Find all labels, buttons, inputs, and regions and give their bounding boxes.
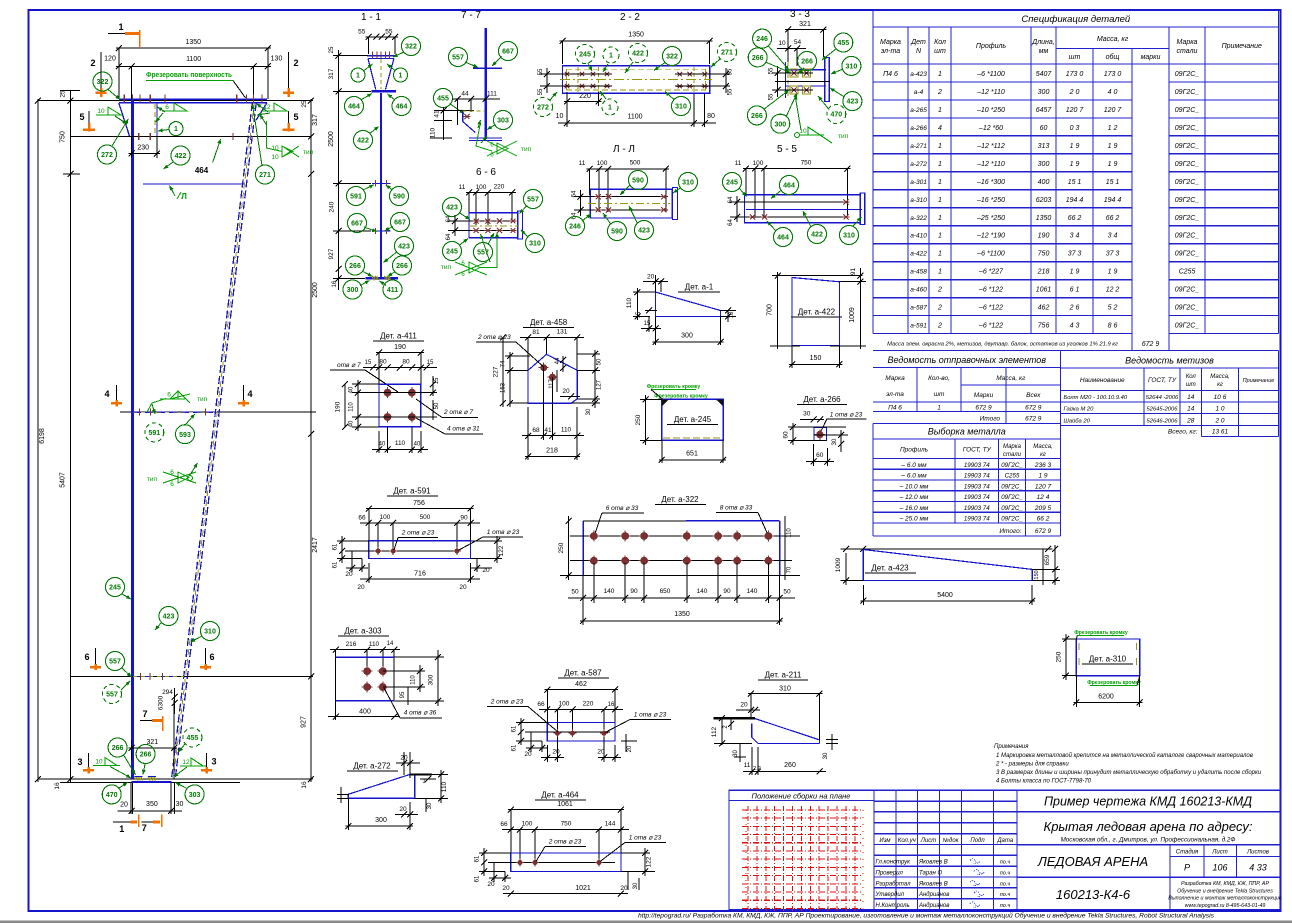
svg-text:20: 20 xyxy=(459,584,467,591)
svg-text:411: 411 xyxy=(387,287,398,294)
svg-text:09Г2С_: 09Г2С_ xyxy=(1001,462,1023,469)
svg-text:Обучение и внедрение Tekla S: Обучение и внедрение Tekla Structures xyxy=(1177,888,1273,894)
right dim chain xyxy=(310,99,312,782)
2-2 bottom dims xyxy=(566,106,568,127)
svg-text:Спецификация деталей: Спецификация деталей xyxy=(1021,14,1131,25)
svg-text:а-272: а-272 xyxy=(910,161,927,168)
svg-text:271: 271 xyxy=(721,50,733,57)
svg-text:4 33: 4 33 xyxy=(1249,863,1267,873)
svg-text:52646-2006: 52646-2006 xyxy=(1147,418,1179,424)
7-7 column line xyxy=(484,28,487,139)
svg-text:Примечание: Примечание xyxy=(1222,43,1262,50)
svg-text:120: 120 xyxy=(104,56,116,63)
svg-text:3: 3 xyxy=(211,757,216,767)
svg-text:64: 64 xyxy=(572,212,578,219)
svg-text:1: 1 xyxy=(938,269,942,276)
svg-text:19903 74: 19903 74 xyxy=(964,505,990,512)
svg-text:– 12.0 мм: – 12.0 мм xyxy=(899,494,929,501)
svg-text:14: 14 xyxy=(1187,406,1195,413)
svg-text:Проверил: Проверил xyxy=(876,870,904,876)
2-2 bolt row lines xyxy=(540,73,612,75)
svg-text:3 4: 3 4 xyxy=(1070,233,1080,240)
svg-text:122: 122 xyxy=(498,545,505,556)
a-458 dims xyxy=(505,355,530,357)
svg-text:1100: 1100 xyxy=(627,114,642,121)
svg-text:591: 591 xyxy=(148,430,160,437)
svg-text:–10 *250: –10 *250 xyxy=(976,107,1005,114)
svg-text:6198: 6198 xyxy=(39,428,46,444)
weld flag 10 (shoe) xyxy=(93,765,120,767)
svg-text:64: 64 xyxy=(728,196,734,203)
svg-text:10: 10 xyxy=(729,311,735,318)
svg-text:1: 1 xyxy=(609,53,613,60)
a-322 bolt rows xyxy=(570,535,800,537)
svg-text:а-266: а-266 xyxy=(910,125,927,132)
svg-text:эл-та: эл-та xyxy=(881,48,900,55)
svg-text:50: 50 xyxy=(597,358,603,365)
a-322 left dim xyxy=(568,516,570,580)
svg-text:25: 25 xyxy=(301,100,308,108)
svg-text:1: 1 xyxy=(938,71,942,78)
table vyborka metalla xyxy=(873,424,1061,537)
svg-text:– 16.0 мм: – 16.0 мм xyxy=(899,505,929,512)
svg-text:7: 7 xyxy=(142,823,147,833)
svg-text:09Г2С_: 09Г2С_ xyxy=(1175,71,1200,78)
svg-text:30: 30 xyxy=(733,750,739,757)
svg-text:266: 266 xyxy=(140,752,152,759)
svg-text:Итого: Итого xyxy=(980,416,1001,423)
left dim chain 5407/750 xyxy=(70,90,72,782)
svg-text:2: 2 xyxy=(937,89,942,96)
svg-text:423: 423 xyxy=(446,205,458,212)
svg-text:С255: С255 xyxy=(1005,473,1020,480)
svg-text:322: 322 xyxy=(666,54,678,61)
svg-text:310: 310 xyxy=(779,686,791,693)
svg-text:6: 6 xyxy=(209,652,214,662)
svg-text:тип: тип xyxy=(838,133,849,140)
svg-text:310: 310 xyxy=(843,233,855,240)
dim 1350 xyxy=(116,47,271,49)
svg-text:590: 590 xyxy=(611,229,623,236)
level line top xyxy=(38,100,313,102)
svg-text:11: 11 xyxy=(735,160,742,167)
svg-text:2 отв ⌀ 23: 2 отв ⌀ 23 xyxy=(401,530,435,537)
svg-text:2 - 2: 2 - 2 xyxy=(620,12,640,23)
svg-text:1 9: 1 9 xyxy=(1108,143,1118,150)
svg-text:6203: 6203 xyxy=(1036,197,1052,204)
brace top right slope xyxy=(256,103,267,120)
svg-text:672 9: 672 9 xyxy=(1142,341,1160,348)
svg-text:отв ⌀ 7: отв ⌀ 7 xyxy=(337,362,361,369)
svg-text:09Г2С_: 09Г2С_ xyxy=(1175,107,1200,114)
svg-text:1 отв ⌀ 23: 1 отв ⌀ 23 xyxy=(634,712,667,719)
svg-text:Итого:: Итого: xyxy=(999,528,1021,535)
balloons base xyxy=(102,785,121,804)
svg-text:Масса элем. окрасна 2%, метизо: Масса элем. окрасна 2%, метизов, двутавр… xyxy=(887,342,1118,348)
svg-text:2500: 2500 xyxy=(328,131,335,147)
svg-text:–6 *227: –6 *227 xyxy=(978,269,1004,276)
svg-text:40: 40 xyxy=(379,442,386,448)
svg-text:ГОСТ, ТУ: ГОСТ, ТУ xyxy=(963,447,992,454)
svg-text:1: 1 xyxy=(938,107,942,114)
svg-text:Таран О: Таран О xyxy=(919,870,943,876)
svg-text:91: 91 xyxy=(850,268,857,276)
left dim chain 6198 xyxy=(37,99,39,782)
green L mark xyxy=(170,186,176,197)
svg-text:266: 266 xyxy=(396,263,408,270)
svg-text:тип: тип xyxy=(521,146,532,153)
3-3 bolts xyxy=(790,69,798,77)
svg-text:303: 303 xyxy=(497,118,509,125)
svg-text:37 3: 37 3 xyxy=(1068,251,1082,258)
svg-text:300: 300 xyxy=(681,333,693,340)
svg-text:Наименование: Наименование xyxy=(1080,377,1125,384)
stiffener 230 xyxy=(156,103,158,137)
svg-text:16: 16 xyxy=(332,280,338,287)
svg-text:60: 60 xyxy=(1040,125,1048,132)
svg-text:750: 750 xyxy=(60,131,67,143)
2-2 center dash xyxy=(560,79,712,81)
svg-text:1 9: 1 9 xyxy=(1108,161,1118,168)
svg-text:09Г2С_: 09Г2С_ xyxy=(1175,323,1200,330)
svg-text:111: 111 xyxy=(487,91,497,98)
svg-text:20: 20 xyxy=(597,749,605,756)
svg-text:1009: 1009 xyxy=(835,557,842,572)
svg-text:09Г2С_: 09Г2С_ xyxy=(1175,161,1200,168)
svg-text:5 - 5: 5 - 5 xyxy=(777,144,797,155)
svg-text:шт: шт xyxy=(1186,382,1196,388)
svg-text:Яковлев В: Яковлев В xyxy=(918,860,948,866)
svg-text:500: 500 xyxy=(630,160,641,167)
svg-text:64: 64 xyxy=(728,219,734,226)
svg-text:–6 *122: –6 *122 xyxy=(978,323,1003,330)
svg-text:16: 16 xyxy=(301,781,308,789)
svg-text:Марка: Марка xyxy=(880,39,901,46)
svg-text:106: 106 xyxy=(1212,863,1227,873)
svg-text:Гл.конструк: Гл.конструк xyxy=(876,860,912,866)
svg-text:80: 80 xyxy=(379,359,387,366)
3-3 channel xyxy=(786,69,827,71)
svg-text:120 7: 120 7 xyxy=(1035,483,1052,490)
6-6 balloons xyxy=(443,198,462,217)
svg-text:260: 260 xyxy=(784,762,796,769)
svg-text:50: 50 xyxy=(434,402,440,409)
svg-text:Профиль: Профиль xyxy=(976,43,1007,50)
svg-text:81: 81 xyxy=(532,329,540,336)
svg-text:15: 15 xyxy=(636,311,642,318)
svg-text:Дет. а-245: Дет. а-245 xyxy=(674,415,712,424)
svg-text:а-587: а-587 xyxy=(910,305,927,312)
svg-text:Положение сборки на плане: Положение сборки на плане xyxy=(752,791,851,800)
svg-text:20: 20 xyxy=(482,567,490,574)
svg-text:66: 66 xyxy=(500,821,508,828)
svg-text:1100: 1100 xyxy=(186,56,201,63)
svg-text:4 отв ⌀ 36: 4 отв ⌀ 36 xyxy=(404,710,437,717)
svg-text:1: 1 xyxy=(938,215,942,222)
svg-text:173 0: 173 0 xyxy=(1104,71,1122,78)
svg-text:6457: 6457 xyxy=(1036,107,1053,114)
svg-text:1: 1 xyxy=(938,197,942,204)
svg-text:14: 14 xyxy=(387,641,394,647)
svg-text:227: 227 xyxy=(493,366,500,377)
svg-text:756: 756 xyxy=(1038,323,1050,330)
svg-text:по.ч: по.ч xyxy=(1000,881,1011,887)
svg-text:455: 455 xyxy=(837,40,849,47)
svg-text:Андрианов: Андрианов xyxy=(918,903,949,909)
level line 6-6 (y=676.5) xyxy=(70,676,313,678)
svg-text:250: 250 xyxy=(1056,651,1063,662)
svg-text:100: 100 xyxy=(753,160,764,167)
svg-text:Дет. а-1: Дет. а-1 xyxy=(685,283,714,292)
svg-text:Дет. а-310: Дет. а-310 xyxy=(1089,655,1127,664)
1-1 flange bar xyxy=(372,90,397,93)
svg-text:09Г2С_: 09Г2С_ xyxy=(1001,516,1023,523)
svg-text:– 10.0 мм: – 10.0 мм xyxy=(899,483,929,490)
svg-text:1021: 1021 xyxy=(575,885,591,892)
svg-text:209 5: 209 5 xyxy=(1034,505,1052,512)
svg-text:500: 500 xyxy=(420,514,431,521)
svg-text:1061: 1061 xyxy=(1036,287,1052,294)
svg-text:672 9: 672 9 xyxy=(1025,405,1042,412)
svg-text:66 2: 66 2 xyxy=(1068,215,1082,222)
L-L bar xyxy=(590,189,672,218)
svg-text:2 отв ⌀ 7: 2 отв ⌀ 7 xyxy=(443,409,473,416)
svg-text:303: 303 xyxy=(189,792,201,799)
title block xyxy=(729,790,1281,909)
svg-text:70: 70 xyxy=(787,566,793,573)
5-5 left dims xyxy=(736,196,738,222)
svg-text:Масса, кг: Масса, кг xyxy=(1097,36,1129,43)
svg-text:462: 462 xyxy=(1038,305,1050,312)
svg-text:55: 55 xyxy=(538,68,544,75)
svg-text:310: 310 xyxy=(846,64,858,71)
svg-text:10: 10 xyxy=(97,108,105,115)
svg-text:455: 455 xyxy=(187,735,199,742)
svg-text:Разработка КМ, КМД, КЖ, ППР, А: Разработка КМ, КМД, КЖ, ППР, АР xyxy=(1181,881,1269,887)
svg-text:240: 240 xyxy=(329,201,336,212)
svg-text:927: 927 xyxy=(328,248,335,259)
svg-text:Примечание: Примечание xyxy=(1243,378,1275,384)
svg-text:230: 230 xyxy=(137,145,149,152)
svg-text:1: 1 xyxy=(938,161,942,168)
svg-text:52644 -2006: 52644 -2006 xyxy=(1146,395,1179,401)
svg-text:10: 10 xyxy=(271,154,279,161)
svg-text:Марка: Марка xyxy=(1003,444,1022,450)
anchor hatches xyxy=(135,777,143,781)
1-1 funnel xyxy=(368,58,376,89)
5-5 bolts xyxy=(749,214,756,219)
svg-text:61: 61 xyxy=(475,875,481,882)
shoe balloons xyxy=(108,738,127,757)
svg-text:321: 321 xyxy=(799,21,811,28)
svg-text:55: 55 xyxy=(769,93,775,100)
svg-text:Дата: Дата xyxy=(996,838,1013,844)
svg-text:110: 110 xyxy=(441,781,448,792)
svg-text:218: 218 xyxy=(1037,269,1050,276)
svg-text:1: 1 xyxy=(937,405,941,412)
svg-text:19903 74: 19903 74 xyxy=(964,462,990,469)
svg-text:150: 150 xyxy=(1034,570,1040,579)
svg-text:140: 140 xyxy=(604,588,615,595)
svg-text:1 отв ⌀ 23: 1 отв ⌀ 23 xyxy=(629,835,662,842)
svg-text:Масса, кг: Масса, кг xyxy=(996,375,1026,382)
svg-text:Листов: Листов xyxy=(1246,850,1269,856)
svg-text:80: 80 xyxy=(402,359,410,366)
svg-text:140: 140 xyxy=(697,588,708,595)
svg-text:Профиль: Профиль xyxy=(900,447,929,454)
svg-text:2 0: 2 0 xyxy=(1069,89,1080,96)
svg-text:5407: 5407 xyxy=(60,472,67,488)
3-3 balloons xyxy=(753,29,772,48)
svg-text:Дет. а-422: Дет. а-422 xyxy=(798,308,836,317)
svg-text:30: 30 xyxy=(586,408,592,415)
svg-text:Изм: Изм xyxy=(879,838,890,844)
svg-text:423: 423 xyxy=(638,228,650,235)
svg-text:Кол: Кол xyxy=(1186,374,1197,380)
2-2 olive inner xyxy=(566,68,706,70)
svg-text:09Г2С_: 09Г2С_ xyxy=(1175,287,1200,294)
svg-text:110: 110 xyxy=(430,127,437,138)
svg-text:– 6.0 мм: – 6.0 мм xyxy=(900,462,927,469)
svg-text:317: 317 xyxy=(328,68,335,79)
svg-text:557: 557 xyxy=(109,659,121,666)
svg-text:131: 131 xyxy=(557,329,568,336)
svg-text:Дет. а-322: Дет. а-322 xyxy=(661,495,699,504)
svg-text:–12 *190: –12 *190 xyxy=(976,233,1005,240)
svg-text:20: 20 xyxy=(487,881,495,888)
svg-text:464: 464 xyxy=(396,104,408,111)
svg-text:6: 6 xyxy=(165,104,169,111)
svg-text:672 9: 672 9 xyxy=(975,405,992,412)
table vedomost metizov xyxy=(1061,351,1279,437)
svg-text:–6 *122: –6 *122 xyxy=(978,287,1003,294)
svg-text:09Г2С_: 09Г2С_ xyxy=(1175,233,1200,240)
svg-text:–12 *112: –12 *112 xyxy=(976,143,1005,150)
svg-text:144: 144 xyxy=(605,821,616,828)
svg-text:60: 60 xyxy=(816,452,824,459)
svg-text:0 3: 0 3 xyxy=(1070,125,1080,132)
7-7 flange line xyxy=(473,67,502,69)
svg-text:по.ч: по.ч xyxy=(1000,860,1011,866)
svg-text:30: 30 xyxy=(803,411,811,418)
svg-text:60: 60 xyxy=(783,431,790,439)
svg-text:190: 190 xyxy=(335,401,342,412)
svg-text:266: 266 xyxy=(349,263,361,270)
svg-text:590: 590 xyxy=(393,194,405,201)
svg-text:09Г2С_: 09Г2С_ xyxy=(1175,143,1200,150)
svg-text:1009: 1009 xyxy=(849,307,856,323)
svg-text:2 отв ⌀ 23: 2 отв ⌀ 23 xyxy=(490,699,524,706)
svg-text:30: 30 xyxy=(633,882,639,889)
svg-text:марки: марки xyxy=(1141,54,1161,61)
svg-text:шт: шт xyxy=(934,48,946,55)
svg-text:Дет: Дет xyxy=(910,39,926,46)
svg-text:20: 20 xyxy=(357,584,365,591)
svg-text:300: 300 xyxy=(1038,89,1050,96)
2-2 balloons xyxy=(576,45,595,64)
svg-text:122: 122 xyxy=(646,856,653,867)
svg-text:462: 462 xyxy=(575,681,587,688)
svg-text:2 отв ⌀ 23: 2 отв ⌀ 23 xyxy=(548,839,582,846)
svg-text:2: 2 xyxy=(293,58,298,68)
a-411 dim web xyxy=(352,383,379,385)
svg-text:294: 294 xyxy=(162,689,173,696)
5-5 balloons xyxy=(723,173,742,192)
svg-text:44: 44 xyxy=(555,357,561,364)
svg-text:1 Маркировка металловой крепи: 1 Маркировка металловой крепится на мета… xyxy=(996,752,1253,759)
svg-text:130: 130 xyxy=(271,56,283,63)
svg-text:220: 220 xyxy=(579,93,591,100)
svg-text:–16 *300: –16 *300 xyxy=(976,179,1005,186)
svg-text:Дет. а-411: Дет. а-411 xyxy=(380,332,417,341)
svg-text:700: 700 xyxy=(767,304,774,316)
svg-text:Лист: Лист xyxy=(920,838,936,844)
5-5 top dims xyxy=(743,168,851,170)
weld flag 6 tip (mid) xyxy=(147,399,166,413)
svg-text:40: 40 xyxy=(349,386,355,393)
svg-text:190: 190 xyxy=(1038,233,1050,240)
svg-text:Марка: Марка xyxy=(1177,39,1198,46)
svg-text:1350: 1350 xyxy=(674,611,690,618)
svg-text:110: 110 xyxy=(561,427,572,434)
svg-text:1 9: 1 9 xyxy=(1070,161,1080,168)
6-6 body xyxy=(469,213,518,238)
svg-text:6300: 6300 xyxy=(158,695,165,710)
svg-text:55: 55 xyxy=(358,29,366,36)
svg-text:1 9: 1 9 xyxy=(1038,473,1047,480)
svg-text:09Г2С_: 09Г2С_ xyxy=(1175,251,1200,258)
svg-text:20: 20 xyxy=(562,388,570,395)
svg-text:20: 20 xyxy=(120,802,128,809)
svg-text:6: 6 xyxy=(170,481,174,488)
bottom dims 20/350/30 xyxy=(130,783,132,814)
svg-text:2 0: 2 0 xyxy=(1214,417,1224,424)
svg-text:90: 90 xyxy=(630,588,638,595)
svg-text:5 2: 5 2 xyxy=(1108,305,1118,312)
balloons 591/593 xyxy=(145,423,164,442)
svg-text:Примечания: Примечания xyxy=(994,744,1029,750)
table vedomost otpravochnyh xyxy=(873,351,1061,424)
svg-text:591: 591 xyxy=(350,194,362,201)
svg-text:2 * - размеры для справки: 2 * - размеры для справки xyxy=(995,762,1069,768)
svg-text:Всех: Всех xyxy=(1026,392,1041,399)
svg-text:а-310: а-310 xyxy=(910,197,927,204)
svg-text:а-265: а-265 xyxy=(910,107,927,114)
svg-text:68: 68 xyxy=(532,427,540,434)
svg-text:Кол: Кол xyxy=(934,39,946,46)
weld flag 12 (shoe) xyxy=(180,765,207,767)
svg-text:стали: стали xyxy=(1177,48,1198,55)
svg-text:95: 95 xyxy=(400,691,406,698)
weld flag 6 xyxy=(162,110,187,112)
svg-text:272: 272 xyxy=(101,152,113,159)
svg-text:Дет. а-423: Дет. а-423 xyxy=(871,564,909,573)
svg-text:300: 300 xyxy=(375,817,387,824)
L-L balloons xyxy=(629,171,648,190)
svg-text:Марка: Марка xyxy=(885,375,905,382)
svg-text:266: 266 xyxy=(752,55,764,62)
svg-text:19903 74: 19903 74 xyxy=(964,494,990,501)
svg-text:90: 90 xyxy=(460,515,468,522)
svg-text:3: 3 xyxy=(77,757,82,767)
1-1 left dim chain xyxy=(338,50,340,290)
svg-text:112: 112 xyxy=(711,726,718,737)
3-3 end plate xyxy=(825,58,830,102)
svg-text:1 2: 1 2 xyxy=(1108,125,1118,132)
svg-text:общ: общ xyxy=(1106,53,1120,61)
svg-text:30: 30 xyxy=(427,802,433,809)
7-7 dims xyxy=(452,98,500,100)
